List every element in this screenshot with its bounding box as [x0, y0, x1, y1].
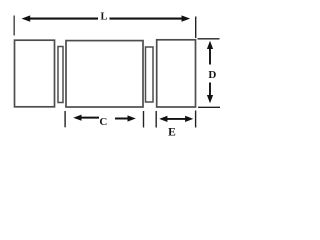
- right neck rectangle: [146, 47, 154, 102]
- dimension D up arrow: [209, 46, 211, 65]
- svg-text:L: L: [100, 11, 107, 22]
- right end cap rectangle: [157, 40, 196, 107]
- dimension D top extension line: [198, 38, 220, 40]
- dimension L line right segment with right arrowhead: [110, 18, 185, 20]
- dimension C left tick: [64, 111, 66, 127]
- dimension L left tick: [13, 16, 15, 36]
- dimension L right tick: [195, 17, 197, 39]
- dimension E left tick: [155, 111, 157, 128]
- dimension E double-headed arrow: [164, 118, 187, 120]
- left neck rectangle: [58, 47, 63, 103]
- svg-text:D: D: [208, 69, 216, 81]
- center body rectangle: [66, 41, 143, 107]
- dimension C left arrow: [81, 117, 100, 119]
- dimension C right arrow: [115, 118, 128, 120]
- dimension C right tick: [143, 111, 145, 128]
- svg-text:C: C: [99, 116, 107, 128]
- dimension D down arrow: [209, 83, 211, 99]
- left end cap rectangle: [15, 40, 55, 107]
- dimension L line left segment with left arrowhead: [27, 18, 98, 20]
- dimension E right tick: [195, 111, 197, 128]
- dimension D bottom extension line: [198, 106, 220, 108]
- svg-text:E: E: [168, 127, 176, 139]
